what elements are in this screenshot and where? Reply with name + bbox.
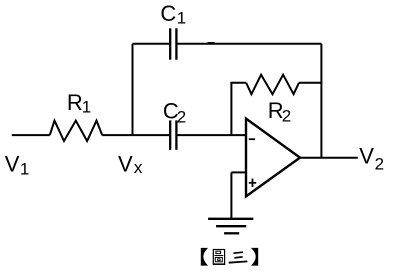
svg-text:R: R: [67, 90, 83, 115]
wire top left to C1: [133, 43, 170, 45]
capacitor C2: [169, 120, 171, 149]
caption glyph 圖: [213, 250, 224, 265]
wire input V1: [12, 134, 50, 136]
svg-text:1: 1: [82, 98, 91, 117]
wire R2 left lead: [230, 82, 246, 84]
wire C2 to op-amp inverting input: [178, 134, 247, 136]
svg-text:1: 1: [20, 159, 29, 178]
svg-text:C: C: [160, 1, 176, 26]
caption right bracket: [251, 248, 258, 266]
svg-text:V: V: [5, 151, 20, 176]
wire C1 to output branch: [178, 43, 322, 45]
caption left bracket: [201, 248, 208, 266]
svg-text:x: x: [134, 158, 143, 177]
resistor R2: [246, 75, 299, 95]
svg-text:1: 1: [177, 8, 186, 27]
svg-text:V: V: [359, 144, 374, 169]
op-amp minus sign: [249, 138, 255, 140]
wire node Vx riser: [132, 44, 134, 135]
ground: [208, 218, 253, 220]
svg-text:2: 2: [282, 106, 291, 125]
wire R2 left branch down: [230, 83, 232, 135]
caption glyph 三: [234, 252, 244, 253]
wire output V2: [300, 157, 358, 159]
svg-text:2: 2: [375, 154, 384, 173]
wire R1 to node Vx to C2: [102, 134, 169, 136]
wire output feedback vertical: [320, 44, 322, 158]
svg-text:2: 2: [177, 107, 186, 126]
junction tick on top wire: [208, 42, 215, 44]
wire to ground: [230, 172, 232, 218]
resistor R1: [50, 121, 102, 141]
capacitor C1: [169, 28, 171, 59]
op-amp U1: [246, 119, 300, 197]
wire R2 right lead: [299, 82, 322, 84]
wire non-inverting input: [231, 171, 246, 173]
svg-text:V: V: [118, 151, 133, 176]
op-amp plus sign: [249, 182, 256, 184]
